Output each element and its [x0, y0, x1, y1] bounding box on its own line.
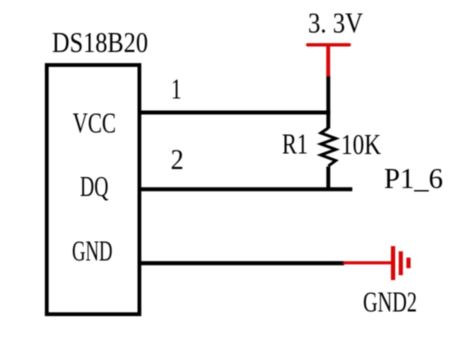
wire vertical 3.3V rail to resistor top: [326, 76, 330, 129]
wire DQ pin2 to P1_6: [139, 187, 352, 191]
svg-text:3. 3V: 3. 3V: [308, 8, 363, 40]
component U1 DS18B20 body: [47, 65, 140, 314]
wire GND pin to ground: [139, 261, 344, 265]
pin number 1: [171, 73, 182, 105]
power symbol 3.3V: [308, 45, 350, 77]
label DS18B20: [52, 27, 148, 59]
wire resistor bottom to DQ net: [326, 167, 330, 190]
svg-text:1: 1: [171, 73, 182, 105]
svg-text:DS18B20: DS18B20: [52, 27, 148, 59]
svg-text:2: 2: [171, 144, 184, 176]
net label P1_6: [384, 163, 443, 195]
svg-text:P1_6: P1_6: [384, 163, 443, 195]
pin name DQ: [80, 171, 108, 203]
svg-text:VCC: VCC: [73, 108, 116, 140]
value label 10K: [341, 129, 381, 161]
pin name VCC: [73, 108, 116, 140]
svg-text:GND2: GND2: [363, 287, 417, 319]
pin number 2: [171, 144, 184, 176]
svg-text:DQ: DQ: [80, 171, 108, 203]
ground symbol GND2 bars: [391, 246, 411, 280]
svg-text:R1: R1: [282, 129, 308, 161]
pin name GND: [72, 235, 113, 267]
label GND2: [363, 287, 417, 319]
ground symbol GND2 lead: [343, 261, 392, 264]
resistor R1 zigzag: [321, 128, 336, 166]
label R1: [282, 129, 308, 161]
svg-text:10K: 10K: [341, 129, 381, 161]
svg-text:GND: GND: [72, 235, 113, 267]
wire VCC pin1 to pull-up node: [139, 111, 330, 115]
net label 3.3V: [308, 8, 363, 40]
